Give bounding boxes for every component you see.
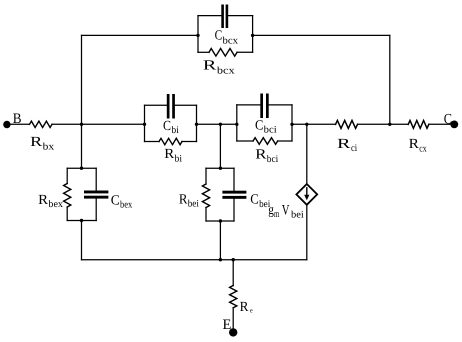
wire source to bottom rail	[306, 205, 308, 260]
wire bottom rail	[82, 259, 307, 261]
resistor R_ci	[336, 120, 358, 154]
wire B to R_bx	[8, 123, 30, 125]
svg-text:C: C	[255, 118, 263, 133]
wire C_bi box to C_bci box	[197, 123, 237, 125]
node rail at R_e branch	[232, 258, 235, 261]
node at R_bei box top	[219, 167, 222, 170]
svg-text:bx: bx	[43, 141, 55, 152]
svg-text:C: C	[163, 119, 171, 134]
capacitor C_bci	[235, 94, 294, 142]
svg-text:C: C	[250, 193, 258, 208]
wire top rail down to collector node	[389, 35, 391, 124]
capacitor C_bi	[143, 94, 198, 142]
svg-text:bex: bex	[48, 199, 63, 210]
svg-text:R: R	[38, 193, 49, 208]
svg-text:cx: cx	[419, 144, 426, 155]
svg-text:V: V	[282, 203, 290, 219]
resistor R_bci	[237, 138, 292, 165]
svg-text:R: R	[203, 59, 217, 74]
node at base junction	[80, 123, 83, 126]
capacitor C_bex	[84, 168, 132, 220]
wire C_bci box to R_ci	[292, 123, 336, 125]
svg-text:m: m	[274, 209, 280, 220]
wire node up to top branch	[81, 35, 83, 124]
node at R_bei branch	[219, 123, 222, 126]
wire gm node down to source	[306, 124, 308, 184]
wire R_bx to C_bi box	[52, 123, 145, 125]
svg-text:bi: bi	[171, 125, 179, 136]
wire R_bex box to bottom rail	[81, 221, 83, 260]
dependent current source gm*V_bei	[268, 184, 317, 221]
wire rail down to R_e	[232, 260, 234, 286]
resistor R_bei	[179, 168, 234, 221]
resistor R_e	[230, 286, 253, 316]
svg-text:R: R	[409, 137, 420, 152]
wire R_ci to R_cx	[358, 123, 409, 125]
wire R_bei box to bottom rail	[219, 221, 221, 260]
resistor R_bx	[30, 121, 55, 152]
wire R_e to terminal E	[232, 308, 234, 333]
svg-text:bcx: bcx	[217, 66, 235, 77]
terminal B	[3, 111, 21, 128]
node at R_bei box bottom	[219, 219, 222, 222]
wire top rail left	[82, 34, 199, 36]
svg-text:R: R	[337, 137, 351, 152]
capacitor C_bcx	[196, 5, 254, 53]
node at top-branch collector junction	[388, 123, 391, 126]
svg-text:bei: bei	[188, 199, 199, 210]
wire top rail right	[253, 34, 390, 36]
node at R_bex box bottom	[80, 219, 83, 222]
svg-text:R: R	[30, 135, 43, 150]
svg-text:C: C	[215, 28, 223, 43]
svg-text:bex: bex	[120, 200, 132, 211]
resistor R_bex	[38, 168, 96, 220]
svg-text:bei: bei	[291, 210, 304, 221]
wire R_bei node down to box	[219, 124, 221, 168]
svg-text:C: C	[444, 111, 452, 127]
resistor R_bi	[145, 138, 197, 164]
resistor R_cx	[408, 121, 429, 155]
node at R_bex box top	[80, 167, 83, 170]
svg-text:bcx: bcx	[223, 35, 239, 46]
svg-text:C: C	[111, 193, 120, 208]
svg-text:E: E	[223, 317, 232, 333]
svg-text:R: R	[240, 300, 249, 315]
resistor R_bcx	[198, 49, 253, 77]
svg-text:ci: ci	[351, 143, 357, 154]
svg-text:e: e	[250, 306, 253, 314]
node at gm source branch	[305, 123, 308, 126]
svg-text:bi: bi	[175, 154, 183, 165]
svg-text:bci: bci	[264, 125, 277, 136]
terminal C	[444, 111, 458, 128]
capacitor C_bei	[222, 168, 270, 221]
svg-text:R: R	[164, 147, 175, 162]
svg-text:R: R	[255, 148, 267, 163]
wire R_cx to terminal C	[429, 123, 455, 125]
wire base node down to R_bex box	[81, 124, 83, 168]
node rail at R_bei branch	[219, 258, 222, 261]
svg-text:bci: bci	[267, 154, 279, 165]
terminal E	[223, 317, 238, 336]
